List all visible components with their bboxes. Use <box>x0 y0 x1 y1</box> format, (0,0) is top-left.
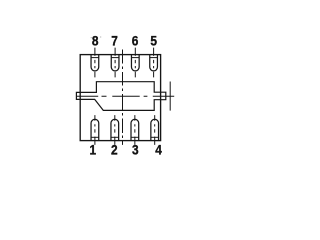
pin 7 lead slot <box>111 48 119 78</box>
svg-text:4: 4 <box>155 142 162 158</box>
vertical centerline <box>122 50 124 145</box>
pin 5 lead slot <box>150 48 158 78</box>
pin 6 lead slot <box>131 48 139 78</box>
pin 3 lead slot <box>131 115 139 145</box>
cavity / seal-ring outline with index tabs <box>76 82 165 111</box>
pin 2 lead slot <box>111 115 119 145</box>
horizontal centerline <box>77 95 175 97</box>
pin 4 lead slot <box>151 115 159 145</box>
package body outline <box>80 55 160 141</box>
scan speck left of 8 <box>91 37 92 38</box>
svg-text:7: 7 <box>111 32 118 48</box>
svg-text:5: 5 <box>150 32 157 48</box>
svg-text:8: 8 <box>92 32 99 48</box>
pin 8 lead slot <box>91 48 99 78</box>
scan speck right of 8 <box>100 37 101 38</box>
svg-text:1: 1 <box>89 142 96 158</box>
projection line (right side) <box>169 82 171 111</box>
svg-text:2: 2 <box>111 142 118 158</box>
pin 1 lead slot <box>91 115 99 145</box>
svg-text:6: 6 <box>132 32 139 48</box>
svg-text:3: 3 <box>132 142 139 158</box>
